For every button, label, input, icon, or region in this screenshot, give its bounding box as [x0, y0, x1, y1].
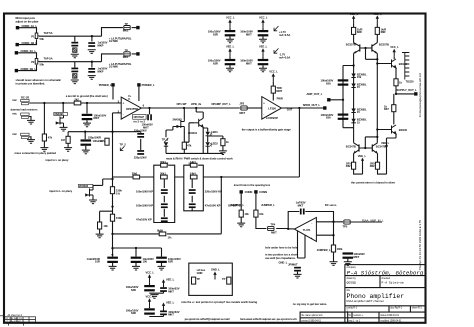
svg-text:68R: 68R	[357, 30, 362, 34]
connector J2 INPUT_B_L	[16, 43, 19, 46]
VCC arrow Q7	[393, 49, 396, 57]
title block col splits row4	[388, 306, 390, 312]
svg-text:-: -	[263, 112, 264, 116]
svg-text:RIAA amplifier LEFT channel: RIAA amplifier LEFT channel	[347, 299, 384, 303]
svg-text:100k: 100k	[337, 247, 343, 251]
wire S5 to R17	[240, 194, 242, 211]
terminal S5	[240, 190, 243, 193]
resistor R3 1M	[66, 136, 70, 143]
svg-text:mute & RIAA / PWR switch & dow: mute & RIAA / PWR switch & down diode co…	[166, 157, 233, 161]
mute BJT Q4	[194, 118, 203, 127]
svg-text:printed 1999-04-01: printed 1999-04-01	[302, 320, 322, 323]
capacitor C14	[161, 203, 168, 208]
junction dots rail	[111, 205, 113, 207]
junction dots on input wire	[43, 102, 45, 104]
svg-text:LED1: LED1	[211, 130, 218, 134]
wire - input	[113, 112, 122, 114]
output junction dot	[148, 107, 150, 109]
svg-text:LED2: LED2	[211, 142, 218, 146]
svg-text:30k1: 30k1	[132, 172, 138, 176]
svg-text:1%: 1%	[116, 191, 120, 195]
wire V+ drop	[112, 87, 114, 100]
svg-text:TP: TP	[125, 49, 129, 53]
VCC arrow U2	[272, 73, 275, 81]
test jack TP1	[124, 26, 130, 30]
svg-text:should never wherever on schem: should never wherever on schematic	[16, 78, 62, 82]
svg-text:MKT: MKT	[168, 289, 174, 293]
svg-text:47k: 47k	[187, 144, 192, 148]
junction servo -in	[332, 221, 334, 223]
svg-text:the current mirror is biased i: the current mirror is biased in silver	[351, 180, 395, 184]
svg-text:VEE_L: VEE_L	[259, 44, 268, 48]
wire servo power drops	[298, 227, 306, 258]
svg-text:TP: TP	[197, 277, 201, 281]
svg-text:a test kit to ground (the shel: a test kit to ground (the shell wire)	[66, 94, 108, 98]
resistor R6 150k lower on rail	[110, 214, 114, 221]
ground mute rail	[219, 151, 227, 155]
wire lower rails	[354, 141, 378, 163]
wire J2 to P1	[19, 39, 37, 44]
svg-text:220p/100R: 220p/100R	[88, 135, 101, 139]
capacitor C10	[258, 30, 269, 36]
resistor R8 47k mute	[182, 142, 186, 149]
resistor R14 block2 top	[190, 163, 197, 167]
title block col split row2	[379, 276, 381, 288]
jack TP4	[268, 226, 274, 230]
title block row line 3	[345, 305, 426, 307]
capacitor C12	[258, 59, 269, 65]
svg-text:AMP_OUT_L: AMP_OUT_L	[307, 92, 323, 96]
capacitor C1b	[88, 42, 95, 47]
wire J1 to P1	[19, 28, 37, 33]
capacitor C23	[131, 257, 142, 263]
wire block1 frame	[154, 165, 175, 222]
svg-text:MKT: MKT	[239, 111, 245, 115]
junction ch1	[91, 35, 93, 37]
capacitor C25	[144, 285, 155, 291]
svg-text:BD140: BD140	[399, 128, 408, 132]
svg-text:drawn by: drawn by	[347, 277, 357, 280]
capacitor C15	[161, 217, 168, 222]
zener D5	[351, 84, 355, 88]
svg-text:JUMPER_L: JUMPER_L	[261, 203, 275, 207]
wire -in rail down	[112, 113, 114, 248]
capacitor C13	[161, 189, 168, 194]
power square V+	[111, 83, 114, 86]
capacitor C26	[160, 287, 167, 292]
svg-text:MKT: MKT	[271, 231, 277, 235]
svg-text:mic: mic	[12, 132, 17, 136]
svg-text:+: +	[122, 102, 124, 106]
svg-text:9k09: 9k09	[157, 228, 163, 232]
junction dots on output wire	[183, 107, 185, 109]
supply note arrow 1	[274, 26, 279, 31]
wire filter main	[113, 176, 222, 178]
svg-text:100n/100V KP: 100n/100V KP	[136, 203, 153, 207]
svg-text:P2: P2	[31, 60, 35, 64]
resistor R1 47k	[42, 134, 46, 141]
resistor R27 in box left	[192, 277, 196, 284]
wire VEE loops	[354, 160, 387, 174]
junction rail dots	[342, 99, 344, 101]
resistor R7 10k	[98, 222, 102, 229]
svg-text:CONN: CONN	[245, 190, 253, 194]
svg-text:VEE_L: VEE_L	[166, 301, 175, 305]
zener D6	[351, 109, 355, 113]
svg-text:VCC_L: VCC_L	[259, 15, 268, 19]
svg-text:-: -	[311, 221, 312, 225]
title block left extension box	[300, 312, 345, 323]
svg-text:adjust on the plate: adjust on the plate	[16, 19, 39, 23]
svg-text:47n/100V KP: 47n/100V KP	[136, 217, 152, 221]
svg-text:63A: 63A	[326, 81, 331, 85]
svg-text:R62: R62	[370, 164, 375, 168]
svg-text:TP_2: TP_2	[120, 143, 127, 147]
NPN Q7 BD139 upper	[387, 59, 396, 68]
capacitor C19	[294, 267, 301, 272]
wire R18 to servo	[256, 217, 288, 228]
label box under U1	[133, 114, 146, 119]
emitter resistor R25	[375, 162, 379, 169]
svg-text:10R: 10R	[95, 260, 100, 264]
resistor R17 10k	[239, 210, 243, 217]
svg-text:220p/100V: 220p/100V	[134, 155, 147, 159]
svg-text:63R: 63R	[213, 61, 218, 65]
capacitor C5 at U1 output	[147, 114, 152, 120]
wire Q8 connections	[377, 130, 396, 175]
wire lower mirror base tie	[359, 137, 377, 148]
capacitor C4 input	[82, 114, 93, 120]
VCC pair 1 arrow	[148, 274, 151, 282]
svg-text:63A: 63A	[326, 116, 331, 120]
svg-text:63R: 63R	[213, 32, 218, 36]
resistor R12 block1 top	[161, 163, 168, 167]
svg-text:DC servo: DC servo	[325, 203, 337, 207]
svg-text:VEE_L: VEE_L	[226, 44, 235, 48]
svg-text:TO220: TO220	[406, 79, 414, 83]
capacitor C21 on left rail	[338, 79, 349, 85]
svg-text:2k2: 2k2	[74, 97, 79, 101]
resistor R11 30k1 series	[133, 175, 140, 179]
svg-text:220n/100V KP: 220n/100V KP	[205, 189, 222, 193]
svg-text:V+: V+	[128, 94, 132, 98]
svg-text:Thu Apr 01 12:34:56 1999 EAGL: Thu Apr 01 12:34:56 1999 EAGLE 3.55	[418, 219, 422, 270]
resistor R21	[375, 27, 379, 34]
terminal S6	[254, 190, 257, 193]
svg-text:50k: 50k	[40, 63, 45, 67]
svg-text:63R: 63R	[131, 311, 136, 315]
VEE pair 1 arrow	[162, 279, 165, 287]
VCC pair 2 arrow	[148, 298, 151, 306]
svg-text:TP4: TP4	[270, 222, 275, 226]
svg-text:revision +: revision +	[353, 314, 364, 317]
svg-text:GND_L: GND_L	[211, 268, 220, 272]
svg-text:OUT: OUT	[287, 108, 293, 112]
svg-text:BC557B: BC557B	[379, 43, 389, 47]
terminal TP1 square	[136, 26, 139, 29]
terminal SUPPLY_OUT square	[414, 92, 417, 95]
svg-text:10k: 10k	[259, 212, 264, 216]
resistor R5 150k upper on rail	[110, 187, 114, 194]
output junction	[298, 107, 300, 109]
connector J3 INPUT_A_R	[15, 51, 18, 54]
svg-text:47n/100V KP: 47n/100V KP	[205, 203, 221, 207]
resistor R18 10k	[254, 210, 258, 217]
wire P1 tap to TP jack run	[39, 28, 123, 37]
svg-text:no sig stay to get two wires.: no sig stay to get two wires.	[293, 302, 328, 306]
feedback wire down-left	[221, 108, 299, 177]
title block row line 2	[345, 287, 426, 289]
VCC arrow C9	[228, 19, 231, 27]
test point TP_2 arrow	[120, 146, 124, 150]
svg-text:P1: P1	[31, 34, 35, 38]
svg-text:VCC_L: VCC_L	[226, 15, 235, 19]
wire P2 tap to TP jack run	[39, 54, 123, 62]
svg-text:JP2: JP2	[239, 102, 244, 106]
svg-text:30k1: 30k1	[160, 160, 166, 164]
capacitor C2a with hatch	[71, 68, 78, 73]
supply note arrow 2	[274, 48, 279, 53]
svg-text:BC547B: BC547B	[376, 144, 386, 148]
connector J1 INPUT_A_L	[16, 26, 19, 29]
wire V- drop	[138, 87, 140, 101]
trimpot P1	[35, 33, 39, 39]
zener D7	[351, 119, 355, 123]
svg-text:MKP: MKP	[98, 44, 104, 48]
trimpot P2	[35, 59, 39, 65]
wire bottom feedback	[113, 177, 222, 234]
VCC arrow rail B	[376, 15, 379, 23]
svg-text:10k: 10k	[244, 212, 249, 216]
capacitor C28	[160, 311, 167, 316]
svg-text:MKT: MKT	[246, 32, 252, 36]
svg-text:MK1: MK1	[123, 29, 129, 33]
svg-text:GND: GND	[197, 271, 203, 275]
wire 10k branch	[100, 211, 113, 222]
resistor R23 1k	[392, 105, 396, 112]
op-amp U1 triangle	[121, 97, 141, 119]
svg-text:VCC_L: VCC_L	[350, 12, 359, 16]
svg-text:MKT: MKT	[298, 203, 304, 207]
svg-text:MKT: MKT	[246, 61, 252, 65]
svg-text:OP1-WT: OP1-WT	[177, 102, 188, 106]
ground servo	[330, 262, 338, 266]
capacitor C24	[156, 257, 167, 263]
svg-text:VEE_L: VEE_L	[166, 277, 175, 281]
resistor R13 block1 mid	[161, 175, 168, 179]
svg-text:BC547B: BC547B	[346, 144, 356, 148]
svg-text:C2 100n 47n KP: C2 100n 47n KP	[6, 321, 22, 323]
resistor R4 220p branch	[105, 138, 109, 145]
svg-text:MNT: MNT	[276, 89, 282, 93]
svg-text:status 1999-04-01: status 1999-04-01	[380, 314, 399, 317]
diode D1	[164, 142, 168, 146]
capacitor C18 servo feedback	[300, 209, 305, 215]
svg-text:2N4393: 2N4393	[54, 112, 64, 116]
junction filter out	[220, 176, 222, 178]
svg-text:150k: 150k	[116, 216, 122, 220]
svg-text:JUMPER_L: JUMPER_L	[230, 203, 244, 207]
compensation network under U1	[68, 113, 141, 248]
svg-text:TP: TP	[222, 277, 226, 281]
wire U2 output	[281, 107, 323, 109]
wire cap stack ch2 drop	[75, 62, 92, 68]
resistor R16 9k09 feedback	[159, 232, 166, 236]
svg-text:2N4401: 2N4401	[188, 131, 198, 135]
title block col splits row5/6	[347, 312, 349, 323]
wire mirror base tie	[360, 48, 378, 59]
capacitor C7	[137, 133, 144, 138]
test jack TP2	[124, 52, 130, 56]
resistor R22 1k	[394, 79, 398, 86]
svg-text:1/2 MIK: 1/2 MIK	[109, 39, 118, 43]
svg-text:MKP: MKP	[98, 69, 104, 73]
heatsink symbol	[402, 53, 409, 80]
capacitor C9	[225, 30, 236, 36]
resistor R15 block2 mid	[190, 175, 197, 179]
svg-text:POWER_L: POWER_L	[99, 83, 112, 87]
svg-text:TAP 5A: TAP 5A	[44, 57, 53, 61]
emitter resistor R24	[352, 162, 356, 169]
ground pair1	[151, 295, 159, 299]
svg-text:hem.www.sdfsdf.swipnet.se/~pa-: hem.www.sdfsdf.swipnet.se/~pa-sjostrom.s…	[240, 317, 297, 321]
svg-text:VCC_L: VCC_L	[373, 12, 382, 16]
svg-text:config R-1: config R-1	[347, 308, 358, 310]
svg-text:PWR: PWR	[277, 96, 283, 100]
wire left rail down	[354, 53, 378, 141]
svg-text:QDSQQ: QDSQQ	[347, 280, 356, 284]
svg-text:exp 1 - to 1: exp 1 - to 1	[349, 320, 361, 323]
power square V-	[137, 83, 140, 86]
svg-text:mass connection in plexy paint: mass connection in plexy painted	[15, 151, 57, 155]
svg-text:use well (too impedance.: use well (too impedance.	[265, 256, 296, 260]
svg-text:47k: 47k	[48, 136, 53, 140]
svg-text:R1 150k 9k09 1%: R1 150k 9k09 1%	[6, 318, 23, 320]
LED D2	[206, 132, 213, 136]
svg-text:30k1: 30k1	[160, 172, 166, 176]
resistor R19 100k servo	[331, 245, 335, 252]
svg-text:VCC_L: VCC_L	[146, 294, 155, 298]
NPN Q8 BD140 lower	[387, 125, 396, 134]
junction ch2	[91, 61, 93, 63]
svg-text:R67: R67	[384, 107, 389, 111]
svg-text:OP27/PMI: OP27/PMI	[126, 107, 138, 111]
svg-text:LF356: LF356	[268, 107, 276, 111]
VCC arrow in box	[213, 272, 216, 280]
jack TP5 on servo out	[344, 220, 350, 224]
svg-text:100n/100V KP: 100n/100V KP	[136, 189, 153, 193]
VEE pair 2 arrow	[162, 303, 165, 311]
svg-text:doc-Rg R-1: doc-Rg R-1	[390, 308, 402, 310]
svg-text:the output is a buffered/unity: the output is a buffered/unity gain stag…	[242, 128, 292, 132]
resistor R9	[221, 139, 225, 146]
svg-text:P-A Sjöström: P-A Sjöström	[382, 280, 404, 284]
svg-text:MK1: MK1	[123, 55, 129, 59]
mute JFET Q1	[56, 116, 64, 126]
svg-text:in two position too a short: in two position too a short	[265, 252, 297, 256]
VCC arrow C10	[261, 19, 264, 27]
wire Q7 collector/emitter	[377, 57, 414, 105]
test point box	[189, 263, 233, 295]
terminal AMP_OUT square	[327, 98, 330, 101]
VCC arrow rail A	[352, 15, 355, 23]
svg-text:A4 sheet rev.1: A4 sheet rev.1	[8, 314, 23, 317]
svg-text:RC-1R: RC-1R	[21, 96, 29, 100]
svg-text:TAP 5A: TAP 5A	[44, 31, 53, 35]
title block row line 5	[300, 317, 425, 319]
VEE flag left	[361, 158, 364, 161]
wire servo output to vertex	[288, 228, 294, 230]
svg-text:SPKR_OUT_L: SPKR_OUT_L	[303, 103, 321, 107]
svg-text:+: +	[311, 237, 313, 241]
wire rails top	[354, 23, 378, 42]
svg-text:JUMPER_L: JUMPER_L	[317, 248, 331, 252]
svg-text:POWER_L: POWER_L	[142, 83, 155, 87]
svg-text:mA=0.5A: mA=0.5A	[279, 33, 290, 37]
wire J4 to P2	[18, 65, 36, 71]
svg-text:in private use identified.: in private use identified.	[16, 81, 46, 85]
svg-text:MKT: MKT	[94, 116, 100, 120]
wire output	[141, 107, 240, 109]
capacitor C2b	[88, 68, 95, 73]
svg-text:14k4: 14k4	[190, 172, 196, 176]
junction servo +in	[332, 234, 334, 236]
svg-text:63R: 63R	[168, 260, 173, 264]
svg-text:VCC_L: VCC_L	[146, 271, 155, 275]
svg-text:dummy load resistors: dummy load resistors	[11, 107, 38, 111]
wire mic1 to opamp input	[29, 103, 121, 134]
svg-text:14k4: 14k4	[190, 160, 196, 164]
VEE flag right	[385, 145, 388, 148]
capacitor C11	[225, 59, 236, 65]
svg-text:1%: 1%	[168, 236, 172, 240]
wire drop to cap	[86, 103, 88, 114]
wire servo feedback loop	[288, 212, 343, 246]
svg-text:input to L on plexy: input to L on plexy	[46, 158, 69, 162]
svg-text:mic: mic	[12, 98, 17, 102]
svg-text:15k: 15k	[357, 75, 362, 79]
svg-text:P-A Sjöström, Göteborg: P-A Sjöström, Göteborg	[347, 270, 424, 277]
wire S6 to R18	[255, 194, 257, 211]
svg-text:MKT: MKT	[354, 255, 360, 259]
wire mute bottom rail	[166, 123, 223, 154]
op-amp U2 triangle	[262, 97, 282, 120]
wire drop to mute JFET	[62, 103, 64, 115]
svg-text:SUPPLY_OUT_L: SUPPLY_OUT_L	[397, 88, 418, 92]
connector J4 INPUT_B_R	[15, 69, 18, 72]
title block row line 1	[345, 275, 426, 277]
svg-text:file name qdsrv2.sch: file name qdsrv2.sch	[302, 314, 324, 317]
resistor R28 in box right	[227, 277, 231, 284]
svg-text:1/2 MIK: 1/2 MIK	[109, 64, 118, 68]
zener D4	[351, 74, 355, 78]
capacitor C20 servo supply	[343, 252, 354, 258]
PNP Q6 current mirror right	[371, 44, 373, 51]
ground S5	[237, 223, 245, 227]
resistor R2 2k2 on input wire	[74, 101, 81, 105]
svg-text:LF356/OP: LF356/OP	[266, 116, 278, 120]
svg-text:mic: mic	[12, 112, 17, 116]
svg-text:TP5: TP5	[342, 225, 347, 229]
svg-text:JP/MKT: JP/MKT	[288, 262, 298, 266]
svg-text:hole under here to be hole.: hole under here to be hole.	[265, 246, 298, 250]
bottom-left revision mini table	[0, 316, 36, 326]
svg-text:68R: 68R	[381, 30, 386, 34]
wire cap stack ch1 drop	[75, 36, 92, 41]
svg-text:OPAMP_OUT_L: OPAMP_OUT_L	[211, 102, 231, 106]
svg-text:insert hole in the spacing box: insert hole in the spacing box	[234, 183, 271, 187]
wire drop to R 47k	[43, 103, 45, 134]
